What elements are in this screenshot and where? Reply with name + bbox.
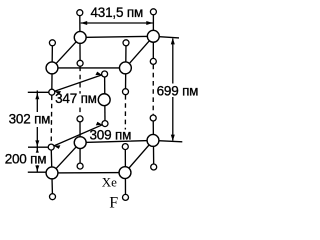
wire back-right column dashed segment [152,65,154,115]
Xe front-right bottom [119,167,131,179]
wire bottom face back edge + 699 bottom extension [80,140,182,142]
svg-text:200 пм: 200 пм [5,152,47,167]
wire center column solid segments [104,74,106,124]
svg-text:347 пм: 347 пм [55,91,97,106]
svg-text:302 пм: 302 пм [9,112,51,127]
dimension 200 пм [28,148,46,172]
wire front-right column solid segments [124,43,127,198]
svg-text:699 пм: 699 пм [157,83,199,98]
wire top face left diagonal [52,37,80,68]
wire front-left column dashed segment [50,96,53,144]
svg-text:Xe: Xe [102,174,117,189]
wire bottom face right diagonal [125,140,153,172]
Xe front-left top [46,62,58,74]
F front-left column [49,40,55,46]
atoms: Xe large circles [46,30,159,179]
dimension arrow 347 пм (F to F) [55,72,102,95]
F center column [102,71,108,77]
label 200 пм [4,152,47,167]
label 699 пм [156,83,199,98]
wire top face back edge + 699 top extension [80,36,179,38]
Xe back-right top [147,30,159,42]
Xe front-left bottom [46,167,58,179]
label 347 пм [55,91,97,106]
F back-right column [150,9,156,15]
wire bottom face left diagonal [52,143,80,173]
Xe body center [98,94,110,106]
wire front-left column solid segments [51,43,52,197]
wire front-right column dashed segment [124,95,126,143]
wire back-left column dashed segment [79,67,81,116]
wire bottom face front edge [52,172,125,174]
svg-text:F: F [109,194,118,211]
svg-text:309 пм: 309 пм [90,128,132,143]
wire top face right diagonal [125,36,153,68]
Xe front-right top [119,62,131,74]
Xe back-left bottom [74,137,86,149]
dimension 699 пм [171,38,175,141]
wire top face front edge [52,67,125,69]
dimension 431,5 пм [81,21,153,25]
wire back-left column solid segments [79,13,81,166]
dimension arrow 309 пм (F to F) [54,122,102,149]
atoms: F small circles [48,9,157,201]
Xe back-right bottom [147,134,159,146]
label 309 пм [89,128,131,143]
Xe back-left top [74,31,86,43]
label 302 пм [8,112,51,127]
F front-right column [123,40,129,46]
svg-text:431,5 пм: 431,5 пм [91,5,144,20]
F back-left column [77,10,83,16]
dimension 302 пм [28,91,50,149]
wire back-right column solid segments [152,12,155,167]
